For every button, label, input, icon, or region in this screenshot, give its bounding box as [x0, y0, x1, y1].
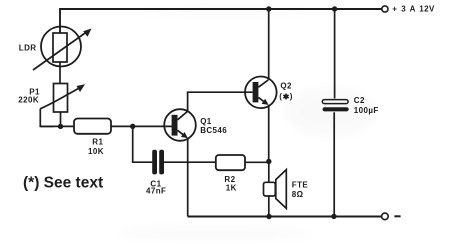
wire: node to R1 — [40, 125, 74, 127]
svg-text:R1: R1 — [92, 138, 103, 147]
wire: LDR bottom to P1 top — [59, 62, 61, 84]
wire: speaker bottom to negative rail — [268, 196, 270, 217]
speaker FTE — [264, 170, 287, 209]
svg-text:+ 3 A 12V: + 3 A 12V — [392, 5, 435, 14]
wire: base node down and right to C1 — [133, 126, 153, 162]
resistor R1 — [74, 119, 111, 134]
wire: R2 to Q2 emitter node — [245, 161, 269, 163]
negative terminal — [382, 213, 389, 220]
potentiometer P1 — [40, 84, 85, 113]
svg-text:8Ω: 8Ω — [292, 190, 304, 199]
svg-text:(*) See text: (*) See text — [23, 175, 103, 192]
transistor Q1 — [164, 109, 196, 141]
junction node Q2 emitter / R2 / speaker — [266, 159, 271, 164]
svg-text:Q1: Q1 — [200, 117, 212, 126]
junction node P1/R1 — [58, 124, 63, 129]
junction node C2 / negative rail — [331, 214, 336, 219]
wire: Q2 emitter down to node — [268, 105, 270, 162]
label: (*) star annotation for Q2 — [279, 92, 293, 101]
LDR — [33, 27, 92, 71]
junction node speaker / rail — [266, 214, 271, 219]
capacitor C2 (electrolytic) — [322, 100, 348, 112]
svg-text:LDR: LDR — [19, 44, 37, 53]
svg-text:Q2: Q2 — [280, 82, 292, 91]
capacitor C1 — [152, 150, 164, 175]
wire: positive supply rail (LDR top to + terminal) — [60, 9, 382, 33]
svg-text:1K: 1K — [226, 184, 237, 193]
junction node Q2 collector / rail — [266, 6, 271, 11]
junction node C2 / positive rail — [332, 6, 337, 11]
wire: Q1 collector up and right to Q2 base — [188, 92, 253, 111]
wire: Q1 emitter down to negative rail — [187, 138, 189, 216]
wire: C2 top lead — [334, 9, 336, 98]
wire: C2 bottom lead — [333, 112, 335, 216]
junction node R1/Q1-base/C1 — [130, 124, 135, 129]
wire: node down to speaker — [268, 162, 270, 183]
svg-text:47nF: 47nF — [146, 186, 166, 195]
wire: P1 bottom lead — [60, 112, 62, 126]
svg-text:BC546: BC546 — [200, 126, 227, 135]
resistor R2 — [216, 155, 245, 170]
wire: Q2 collector up to positive rail — [268, 9, 270, 80]
svg-text:(: ( — [279, 92, 282, 101]
positive terminal — [382, 6, 388, 12]
svg-text:220K: 220K — [18, 95, 39, 104]
svg-text:10K: 10K — [88, 147, 104, 156]
wire: R1 to Q1 base — [111, 125, 172, 127]
transistor Q2 — [245, 77, 277, 109]
wire: P1 wiper down to bottom node — [40, 109, 53, 127]
label: minus sign — [394, 215, 400, 217]
svg-text:FTE: FTE — [292, 181, 309, 190]
wire: C1 to R2 — [164, 161, 216, 163]
wire: negative rail — [188, 216, 382, 218]
